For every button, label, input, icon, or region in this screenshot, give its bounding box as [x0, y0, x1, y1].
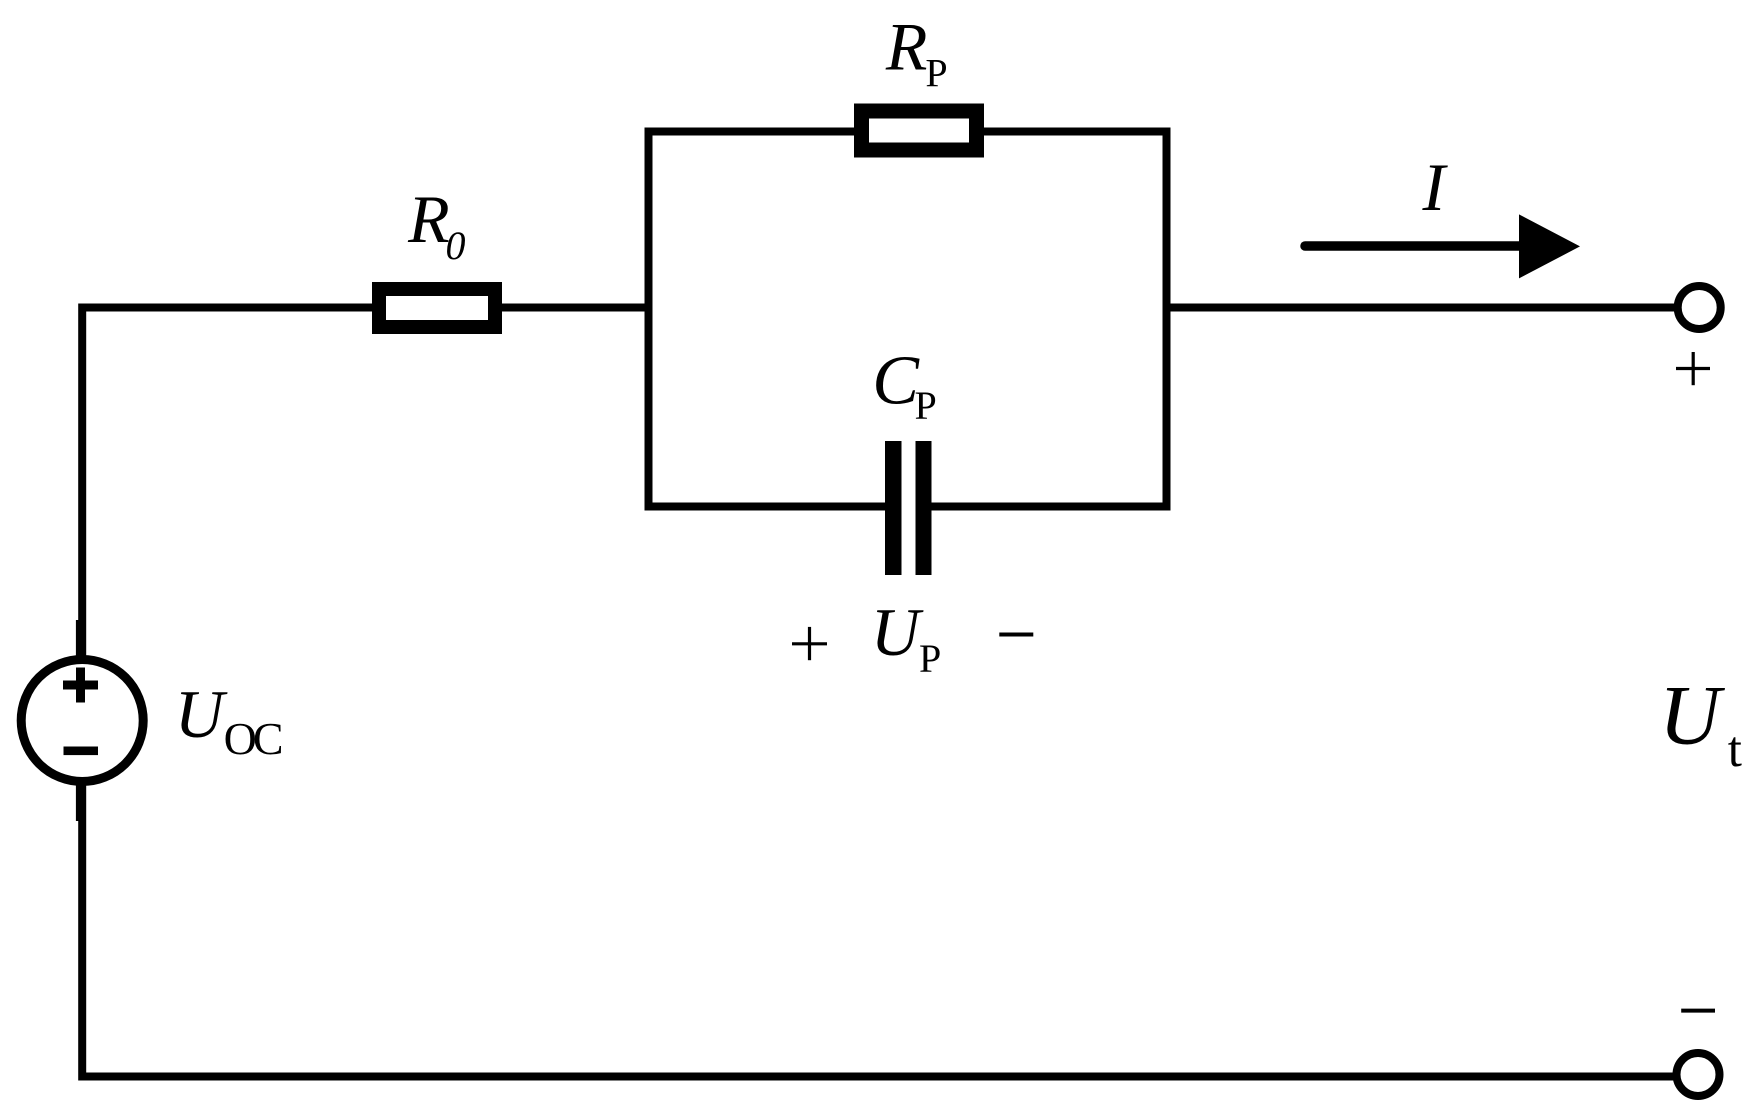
- svg-text:0: 0: [446, 223, 466, 268]
- svg-text:OC: OC: [224, 713, 282, 764]
- svg-text:P: P: [915, 383, 937, 428]
- svg-text:R: R: [885, 8, 928, 84]
- svg-text:t: t: [1728, 722, 1742, 778]
- svg-text:U: U: [1659, 668, 1725, 762]
- svg-text:R: R: [407, 181, 450, 257]
- svg-text:I: I: [1422, 149, 1449, 225]
- svg-text:P: P: [919, 636, 941, 681]
- svg-text:U: U: [175, 676, 228, 752]
- svg-text:C: C: [872, 343, 920, 420]
- svg-text:U: U: [871, 594, 924, 670]
- svg-text:P: P: [925, 50, 947, 95]
